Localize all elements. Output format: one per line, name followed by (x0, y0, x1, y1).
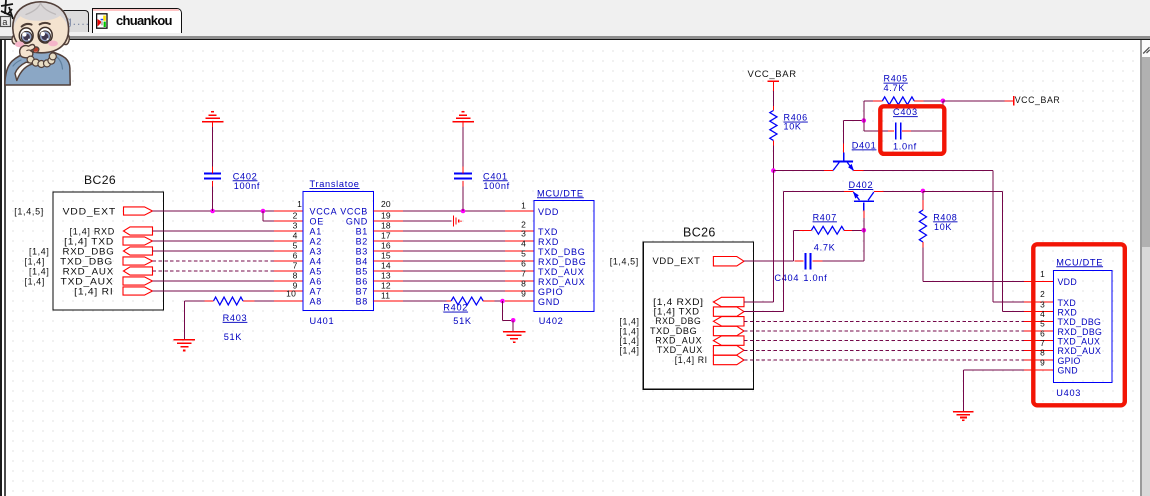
pin U401 right row 261 (374, 260, 403, 262)
svg-text:R403: R403 (223, 313, 248, 323)
svg-text:19: 19 (381, 211, 391, 221)
svg-text:MCU/DTE: MCU/DTE (1056, 257, 1103, 267)
svg-text:10K: 10K (784, 122, 802, 132)
IC U402 MCU/DTE body (534, 201, 594, 312)
svg-text:51K: 51K (453, 316, 472, 326)
pin U401 right row 291 (374, 290, 403, 292)
svg-text:U403: U403 (1056, 388, 1081, 398)
svg-text:A3: A3 (310, 247, 322, 257)
svg-text:[1,4]: [1,4] (620, 346, 640, 356)
pin U401.5 A2 (274, 240, 303, 242)
svg-text:B5: B5 (356, 267, 368, 277)
svg-text:1.0nf: 1.0nf (893, 142, 917, 152)
IC U401 Translatoe body (303, 192, 374, 311)
capacitor C404 right lead (813, 260, 823, 262)
head outline (13, 2, 69, 53)
svg-text:3: 3 (521, 229, 526, 239)
svg-text:U402: U402 (539, 316, 564, 326)
wire D402 emitter to R408 junction (883, 190, 923, 192)
svg-text:C402: C402 (233, 171, 258, 181)
svg-text:BC26: BC26 (84, 173, 116, 187)
wire corner up to R407 (793, 230, 795, 261)
left eye (19, 28, 33, 43)
svg-text:RXD_DBG: RXD_DBG (655, 316, 701, 326)
wire C402 bottom to VDD_EXT row (212, 187, 214, 212)
wire TXD_AUX row (153, 280, 275, 282)
svg-text:B7: B7 (356, 287, 368, 297)
svg-text:TXD_DBG: TXD_DBG (538, 247, 585, 257)
svg-text:4.7K: 4.7K (884, 83, 906, 93)
junction C402/VDD_EXT (210, 209, 215, 214)
svg-text:11: 11 (381, 291, 390, 301)
wire VCC_BAR right net (943, 100, 1005, 102)
svg-text:RXD_DBG: RXD_DBG (1058, 327, 1103, 337)
svg-text:VCCA: VCCA (310, 207, 338, 217)
svg-text:10K: 10K (934, 222, 952, 232)
wire RXD_DBG row (153, 250, 275, 252)
capacitor C404 plates (804, 253, 806, 270)
svg-text:8: 8 (293, 271, 298, 281)
wire RXD row (153, 230, 275, 232)
pin U403 row 321.3 (1024, 320, 1054, 322)
pin U402 row 231 (505, 230, 534, 232)
svg-text:GPIO: GPIO (538, 287, 563, 297)
right eye (38, 27, 52, 43)
wire OE branch vertical (262, 211, 264, 221)
body fold lines (57, 57, 63, 69)
hand and finger at mouth (20, 44, 35, 57)
capacitor C402 upper lead (212, 167, 214, 174)
tab bar (0, 0, 1150, 36)
wire dashed row y=340.6 (744, 340, 1024, 342)
pin U403.1 VDD (1024, 280, 1054, 282)
wire D401 base up (843, 121, 845, 144)
pin U401.2 VCCA (274, 210, 303, 212)
svg-text:VDD: VDD (538, 207, 559, 217)
resistor R406 body (770, 111, 777, 141)
pin U401 right row 251 (374, 250, 403, 252)
sticker: cartoon baby character (5, 1, 70, 85)
svg-text:TXD_AUX: TXD_AUX (1058, 336, 1101, 346)
wire R406 bottom to junction (772, 146, 774, 171)
port [1,4] RXD (BC26 left) (124, 227, 153, 235)
wire VDD row to U403 (923, 280, 1024, 282)
svg-text:D401: D401 (852, 140, 877, 150)
svg-text:RXD_AUX: RXD_AUX (1058, 346, 1102, 356)
resistor R402 body (451, 297, 483, 305)
svg-text:R402: R402 (443, 303, 468, 313)
wire gnd drop horizontal (503, 319, 514, 321)
svg-text:[1,4] TXD: [1,4] TXD (654, 307, 700, 317)
pin D402 collector (844, 190, 854, 192)
capacitor C401 plates (454, 172, 472, 174)
port [1,4] TXD (BC26 left) (123, 237, 153, 245)
pin U401.19 VCCB (374, 210, 403, 212)
pin U401.3 OE (274, 220, 303, 222)
resistor R408 body (919, 210, 926, 242)
svg-text:B3: B3 (356, 247, 368, 257)
svg-text:[1,4 RXD]: [1,4 RXD] (653, 297, 704, 307)
wire TXD corner to U403 (993, 301, 1024, 303)
svg-text:VDD_EXT: VDD_EXT (63, 207, 116, 217)
svg-text:4: 4 (521, 239, 526, 249)
svg-text:1: 1 (297, 199, 302, 209)
resistor R408 top lead (922, 200, 924, 210)
svg-text:RXD: RXD (538, 237, 559, 247)
resistor R405 right lead (914, 100, 924, 102)
wire R405 left (864, 100, 873, 102)
junction D401 base / C403 left node (862, 118, 867, 123)
wire TXD vertical to D402 (784, 190, 844, 192)
sideways ground bar symbol at pin18 net (452, 216, 454, 227)
pin U403 row 340.6 (1024, 340, 1054, 342)
svg-text:C404: C404 (774, 273, 799, 283)
capacitor C403 plates (895, 123, 897, 140)
wire R403 to ground corner (184, 300, 204, 302)
pin U401.18 GND (374, 220, 403, 222)
wire U401 to U402 row 261 (403, 260, 505, 262)
wire R408 top (922, 191, 924, 200)
wire VDD_EXT row to U401 (153, 210, 275, 212)
resistor R407 right lead (844, 229, 852, 231)
svg-text:1: 1 (1040, 269, 1045, 279)
junction R408 top (921, 189, 926, 194)
svg-text:B6: B6 (356, 277, 368, 287)
pin U401 right row 271 (374, 270, 403, 272)
wire U401 to U402 row 291 (403, 290, 505, 292)
wire gnd drop vertical (502, 301, 504, 320)
svg-text:VDD: VDD (1058, 277, 1077, 287)
gray hair cap (13, 1, 69, 31)
resistor R402 right lead (483, 300, 494, 302)
wire A8 row from R403 to pin (255, 300, 275, 302)
svg-text:TXD_AUX: TXD_AUX (538, 267, 584, 277)
wire C401 top to power port (462, 127, 464, 167)
svg-text:RXD_AUX: RXD_AUX (655, 336, 702, 346)
red highlight box around C403 (880, 106, 944, 154)
wire RXD corner to U403 (1003, 311, 1025, 313)
wire TXD vertical (to U403) (992, 171, 994, 302)
wire dashed row y=321.3 (744, 320, 1024, 322)
svg-text:B8: B8 (356, 297, 368, 307)
wire VCC_BAR to R406 (772, 91, 774, 106)
svg-text:A5: A5 (310, 267, 322, 277)
pin D402 base (863, 210, 865, 218)
port RXD_AUX (BC26 left) (124, 267, 153, 275)
svg-text:B1: B1 (356, 227, 368, 237)
junction C401/VDD (461, 209, 466, 214)
wire GND pin18 to bar symbol (403, 220, 452, 222)
pin U403.2 TXD (1024, 301, 1054, 303)
pin U401 right row 231 (374, 230, 403, 232)
svg-text:R407: R407 (813, 212, 837, 222)
wire dashed row y=360.0 (744, 359, 1024, 361)
pin U401.8 A5 (274, 270, 303, 272)
power port stem above C402 (212, 122, 214, 127)
svg-text:15: 15 (381, 251, 391, 261)
svg-text:[1,4] RI: [1,4] RI (74, 287, 113, 297)
active document tab "chuankou" (92, 8, 182, 33)
port [1,4] RI (BC26 left) (123, 287, 153, 295)
pin D401 base (843, 144, 845, 153)
capacitor C403 left lead (888, 130, 894, 132)
wire C401 bottom to VDD row (462, 187, 464, 212)
pin U401.9 A6 (274, 280, 303, 282)
capacitor C404 left lead (795, 260, 804, 262)
small icon with letter a behind sticker (1, 17, 11, 27)
wire dashed row y=350.3 (744, 349, 1024, 351)
svg-text:8: 8 (1040, 348, 1045, 358)
transistor D402 (853, 192, 874, 211)
svg-text:A4: A4 (310, 257, 322, 267)
svg-text:[1,4]: [1,4] (29, 267, 50, 277)
sticker overlay (0, 0, 190, 100)
pin U401.10 A7 (274, 290, 303, 292)
pin U403 row 331.0 (1024, 330, 1054, 332)
svg-text:VCCB: VCCB (340, 207, 368, 217)
capacitor C401 lower lead (462, 181, 464, 187)
pin U402 row 291 (505, 290, 534, 292)
svg-text:6: 6 (521, 259, 526, 269)
svg-text:[1,4] TXD: [1,4] TXD (64, 237, 114, 247)
right ear (62, 33, 69, 45)
wire C404 right (822, 260, 864, 262)
pin U403.GND (1024, 369, 1054, 371)
wire GND stem vertical (963, 370, 965, 412)
wire VCCB to U402 VDD (403, 210, 505, 212)
wire TXD port row horizontal (744, 311, 784, 313)
wire D401 left from junction (773, 170, 824, 172)
svg-text:[1,4]: [1,4] (620, 317, 640, 327)
pin U402.GND (505, 300, 534, 302)
red highlight box around U403 (1033, 244, 1125, 405)
svg-text:17: 17 (381, 231, 391, 241)
wire U401 to U402 row 271 (403, 270, 505, 272)
wire C403 right node vertical (942, 101, 944, 131)
toolbar glyph behind sticker (Chinese char fragment) (1, 0, 13, 19)
svg-text:1: 1 (521, 201, 526, 211)
wire U401 to U402 row 231 (403, 230, 505, 232)
svg-text:5: 5 (1040, 319, 1045, 329)
resistor R405 left lead (873, 100, 883, 102)
pin U402 row 281 (505, 280, 534, 282)
IC U403 MCU/DTE body (1054, 271, 1113, 383)
power port symbol above C402 (202, 121, 224, 123)
wire ground stem vertical (183, 301, 185, 340)
head base (cream face) (13, 2, 69, 53)
pin U401.6 A3 (274, 250, 303, 252)
svg-text:RXD_DBG: RXD_DBG (63, 247, 115, 257)
ground symbol below U402 (503, 331, 526, 333)
ground symbol below U403 (953, 411, 974, 413)
wire R407 left (794, 229, 800, 231)
svg-text:51K: 51K (224, 332, 243, 342)
resistor R402 left lead (447, 300, 452, 302)
svg-text:B4: B4 (356, 257, 368, 267)
port TXD_AUX (BC26 right) (713, 346, 744, 355)
svg-text:7: 7 (293, 261, 298, 271)
wire gnd stem (512, 320, 514, 331)
port RXD_DBG (BC26 left) (124, 247, 153, 255)
svg-text:TXD: TXD (538, 227, 558, 237)
port VDD_EXT (BC26 right) (713, 257, 744, 266)
right scrollbar (1140, 40, 1141, 496)
white sleeve cuff (15, 62, 35, 80)
wire D402 base to junction (863, 218, 865, 230)
pin D402 emitter (874, 190, 884, 192)
wire R405 right to junction (924, 100, 943, 102)
capacitor C401 upper lead (462, 167, 464, 174)
window left edge lines (0, 36, 2, 496)
svg-text:BC26: BC26 (683, 225, 716, 239)
wire D402 row to RXD corner (923, 190, 1003, 192)
svg-text:6: 6 (293, 251, 298, 261)
sheet symbol BC26 (right module block) (643, 242, 753, 389)
resistor R403 right lead (243, 300, 255, 302)
blush left (15, 41, 24, 47)
pin U401.7 A4 (274, 260, 303, 262)
svg-text:GND: GND (538, 297, 560, 307)
pin U403.3 RXD (1024, 311, 1054, 313)
wire D401 emitter row to TXD corner (863, 170, 993, 172)
svg-text:[1,4]: [1,4] (620, 326, 640, 336)
svg-text:OE: OE (310, 217, 324, 227)
pin D401 emitter (853, 170, 863, 172)
resistor R407 body (811, 226, 844, 234)
svg-text:6: 6 (1040, 328, 1045, 338)
resistor R408 bottom lead (922, 242, 924, 248)
capacitor C403 right lead (902, 130, 911, 132)
svg-text:A2: A2 (310, 237, 322, 247)
pin U403 row 360.0 (1024, 359, 1054, 361)
svg-text:D402: D402 (849, 180, 874, 190)
svg-text:7: 7 (521, 269, 526, 279)
svg-text:TXD_DBG: TXD_DBG (60, 257, 113, 267)
wire dashed row y=331.0 (744, 330, 1024, 332)
svg-text:A6: A6 (310, 277, 322, 287)
svg-text:TXD_DBG: TXD_DBG (650, 326, 697, 336)
wire TXD_DBG row (dashed) (153, 260, 275, 262)
wire C403 left node vertical (863, 101, 865, 131)
pin U401.11 B8 wait - B8 row wire (374, 300, 403, 302)
resistor R406 top lead (772, 106, 774, 111)
svg-text:[1,4]: [1,4] (29, 247, 50, 257)
wire GND row to corner (964, 369, 1024, 371)
svg-text:B2: B2 (356, 237, 368, 247)
port RXD_AUX (BC26 right) (713, 336, 744, 345)
wire RXD port row horizontal (744, 301, 773, 303)
svg-text:TXD: TXD (1058, 298, 1077, 308)
svg-text:GPIO: GPIO (1058, 356, 1081, 366)
svg-text:Translatoe: Translatoe (310, 179, 360, 189)
pin U402 row 271 (505, 270, 534, 272)
wire OE branch horizontal (263, 220, 274, 222)
resistor R406 bottom lead (772, 140, 774, 145)
wire R402 to junction (494, 300, 502, 302)
resistor R405 body (882, 97, 914, 105)
svg-text:3: 3 (293, 221, 298, 231)
necklace beads (27, 53, 56, 68)
resistor R403 body (214, 297, 244, 305)
svg-text:TXD_DBG: TXD_DBG (1058, 317, 1102, 327)
svg-text:2: 2 (293, 211, 298, 221)
resistor R407 left lead (799, 229, 811, 231)
svg-text:4: 4 (1040, 309, 1045, 319)
wire VDD_EXT right to RC corner (744, 260, 794, 262)
svg-text:GND: GND (346, 217, 368, 227)
svg-text:GND: GND (1058, 366, 1078, 376)
pin U401 right row 241 (374, 240, 403, 242)
svg-text:RXD_AUX: RXD_AUX (63, 267, 114, 277)
svg-text:RXD_AUX: RXD_AUX (538, 277, 585, 287)
svg-text:TXD_AUX: TXD_AUX (657, 345, 703, 355)
sheet symbol BC26 (left module block) (53, 192, 164, 310)
capacitor C402 lower lead (212, 181, 214, 187)
svg-text:RXD_DBG: RXD_DBG (538, 257, 586, 267)
svg-text:[1,4]: [1,4] (25, 257, 46, 267)
wire R407 right to junction (852, 229, 864, 231)
port [1,4 RXD] (BC26 right) (713, 297, 744, 306)
svg-text:4.7K: 4.7K (814, 243, 836, 253)
resistor R403 left lead (205, 300, 214, 302)
svg-text:20: 20 (381, 199, 391, 209)
svg-text:[1,4] RXD: [1,4] RXD (70, 227, 115, 237)
svg-text:[1,4] RI: [1,4] RI (675, 355, 708, 365)
capacitor C402 plates (204, 172, 221, 174)
junction R405/C403 right node (941, 99, 946, 104)
pin U402 row 251 (505, 250, 534, 252)
pin U403 row 350.3 (1024, 349, 1054, 351)
pin U402 row 241 (505, 240, 534, 242)
wire RXD_AUX row (dashed) (153, 270, 275, 272)
svg-text:2: 2 (1040, 289, 1045, 299)
wire TXD row (153, 240, 275, 242)
port TXD_AUX (BC26 left) (123, 277, 153, 285)
svg-text:RXD: RXD (1058, 307, 1077, 317)
power port stem above C401 (462, 122, 464, 127)
svg-text:VDD_EXT: VDD_EXT (653, 256, 701, 266)
power port symbol above C401 (452, 121, 474, 123)
eyebrows (22, 24, 32, 27)
port TXD_DBG (BC26 right) (713, 326, 744, 335)
wire U401 to U402 row 241 (403, 240, 505, 242)
svg-text:100nf: 100nf (483, 181, 510, 191)
pin U401 A8 (274, 300, 303, 302)
left ear (12, 35, 18, 44)
wire R408 bottom to VDD corner (922, 248, 924, 282)
wire D401 base horizontal (844, 120, 864, 122)
wire C402 top to power port (212, 127, 214, 167)
port RXD_DBG (BC26 right) (713, 317, 744, 326)
port [1,4] TXD (BC26 right) (713, 307, 744, 316)
wire RI row (153, 290, 275, 292)
pin D401 collector (824, 170, 833, 172)
pin U402 row 261 (505, 260, 534, 262)
wire U401 to U402 row 281 (403, 280, 505, 282)
svg-text:TXD_AUX: TXD_AUX (61, 277, 114, 287)
svg-text:[1,4,5]: [1,4,5] (610, 256, 639, 266)
svg-text:7: 7 (1040, 338, 1045, 348)
port TXD_DBG (BC26 left) (123, 257, 153, 265)
svg-text:VCC_BAR: VCC_BAR (748, 69, 797, 79)
svg-text:3: 3 (1040, 299, 1045, 309)
svg-text:10: 10 (286, 288, 296, 298)
svg-text:8: 8 (521, 279, 526, 289)
svg-text:1.0nf: 1.0nf (803, 273, 827, 283)
wire TXD riser (vertical from D402 row to BC26 TXD port row) (783, 191, 785, 311)
svg-text:4: 4 (293, 231, 298, 241)
blush right (48, 41, 58, 47)
